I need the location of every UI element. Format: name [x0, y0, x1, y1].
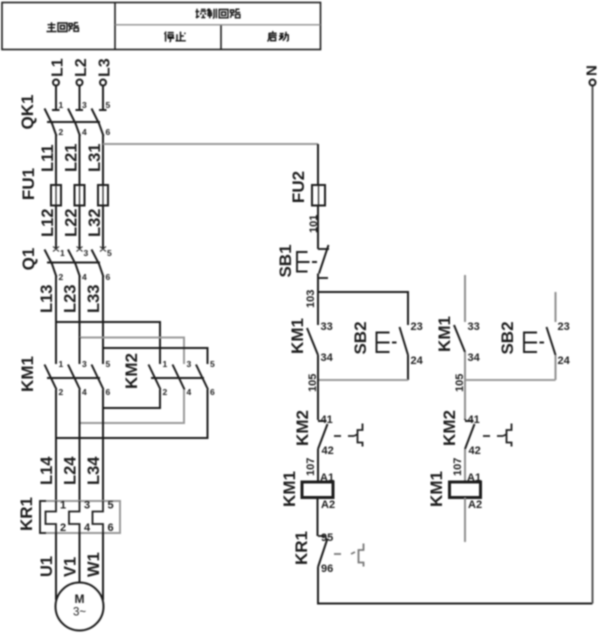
svg-text:107: 107 [305, 458, 317, 476]
pushbutton SB2 (right) [524, 327, 556, 355]
svg-text:3: 3 [84, 248, 89, 258]
coil KM2 (labelled KM1) [450, 482, 481, 498]
fuse FU2 [312, 185, 325, 206]
header text 控制回路 [195, 9, 240, 19]
svg-text:103: 103 [305, 290, 317, 308]
svg-text:L33: L33 [85, 285, 103, 313]
wire SB2 branch top (right) [555, 292, 557, 322]
KM2 aux pins 41 42 [321, 414, 334, 457]
KR1 left edge [40, 501, 46, 533]
svg-text:101: 101 [308, 215, 320, 233]
svg-text:6: 6 [108, 522, 114, 534]
thermal trip dash [334, 553, 341, 555]
svg-text:L3: L3 [97, 58, 114, 77]
svg-text:L24: L24 [62, 456, 80, 485]
wire right branch top [464, 275, 466, 322]
wire SB2 to node 105 (right) [555, 355, 557, 380]
svg-text:L34: L34 [85, 456, 103, 485]
svg-text:2: 2 [59, 272, 64, 282]
svg-text:1: 1 [60, 248, 65, 258]
svg-text:1: 1 [59, 100, 64, 110]
wire L23 segment [62, 285, 80, 338]
svg-text:Q1: Q1 [19, 248, 38, 271]
svg-text:A2: A2 [468, 499, 482, 511]
svg-text:2: 2 [163, 387, 168, 397]
svg-text:3~: 3~ [73, 607, 86, 619]
svg-text:33: 33 [468, 321, 480, 333]
contactor KM2 main contacts [149, 365, 209, 390]
svg-text:96: 96 [321, 563, 333, 575]
svg-text:SB2: SB2 [498, 321, 517, 354]
wire SB2 bottom to node 105 [407, 355, 409, 380]
svg-text:L32: L32 [86, 209, 104, 237]
svg-text:FU1: FU1 [19, 168, 38, 200]
wire 103 [305, 274, 318, 309]
svg-text:L12: L12 [39, 209, 57, 237]
wire V1 segment [62, 533, 80, 583]
wire L24 segment [62, 390, 80, 502]
svg-text:N: N [584, 65, 599, 76]
wire 101 [308, 206, 320, 250]
svg-text:KM1: KM1 [18, 356, 37, 392]
svg-text:5: 5 [106, 359, 111, 369]
wire 107 (right) [452, 449, 465, 482]
wire branch top to SB2 [318, 292, 408, 325]
svg-text:KR1: KR1 [292, 531, 311, 565]
breaker QK1 [45, 86, 107, 147]
svg-text:33: 33 [321, 321, 333, 333]
svg-text:L22: L22 [63, 209, 81, 237]
wire feed phase3 to KM2 pole3 [103, 348, 208, 364]
wire bottom run to N [318, 567, 593, 604]
svg-text:107: 107 [452, 458, 464, 476]
mechanical interlock symbol right [503, 424, 512, 447]
svg-text:FU2: FU2 [289, 171, 308, 203]
svg-text:34: 34 [468, 352, 481, 364]
wire N riser [592, 86, 594, 604]
svg-text:41: 41 [321, 414, 333, 426]
wire feed phase2 to KM2 pole2 [80, 338, 185, 365]
svg-text:KM2: KM2 [440, 410, 459, 446]
node L3 terminal [97, 58, 114, 85]
wire L32 segment [86, 206, 104, 250]
header text 主回路 [47, 22, 79, 31]
node N terminal [584, 65, 599, 85]
svg-text:L13: L13 [38, 285, 56, 313]
svg-text:L23: L23 [62, 285, 80, 313]
svg-text:SB2: SB2 [351, 321, 370, 354]
svg-text:4: 4 [82, 387, 87, 397]
contact KR1 aux NC [318, 536, 328, 567]
svg-text:2: 2 [59, 127, 64, 137]
svg-text:23: 23 [558, 321, 570, 333]
svg-text:3: 3 [84, 500, 90, 512]
wire feed phase1 to KM2 pole1 [56, 322, 160, 364]
wire node 105 (right) [454, 374, 556, 392]
svg-text:5: 5 [107, 248, 112, 258]
header text 停止 [165, 32, 186, 42]
KR1 pin numbers [60, 500, 114, 535]
svg-text:L2: L2 [73, 58, 90, 77]
KR1 heater element pole3 [93, 501, 104, 533]
contact KM1 aux NO [307, 328, 318, 355]
svg-text:5: 5 [210, 359, 215, 369]
svg-text:M: M [75, 592, 85, 606]
svg-text:KM1: KM1 [427, 471, 446, 507]
wire L12 segment [39, 206, 57, 250]
svg-text:A2: A2 [321, 499, 335, 511]
contact KM1 aux NO (right) [454, 325, 465, 352]
svg-text:5: 5 [106, 100, 111, 110]
svg-text:KR1: KR1 [17, 497, 36, 531]
wire 107 [305, 449, 318, 482]
svg-text:U1: U1 [38, 556, 56, 577]
wire control drop to FU2 [317, 144, 319, 185]
svg-text:4: 4 [82, 127, 87, 137]
pushbutton SB2 (NO start) [377, 327, 409, 355]
wire W1 segment [85, 533, 103, 600]
svg-text:95: 95 [321, 532, 333, 544]
svg-text:42: 42 [322, 445, 334, 457]
pushbutton SB1 (NC stop) [297, 245, 329, 278]
svg-text:24: 24 [411, 355, 424, 367]
wire L34 segment [85, 390, 103, 502]
svg-text:24: 24 [558, 355, 571, 367]
svg-text:34: 34 [321, 352, 334, 364]
wire phase2 into KM1 [79, 338, 81, 365]
svg-text:3: 3 [82, 359, 87, 369]
wire phase3 into KM1 [102, 348, 104, 364]
contact KM2 aux NC [318, 419, 328, 449]
mechanical interlock dashes right [483, 435, 503, 437]
coil KM1 [302, 482, 333, 498]
svg-text:2: 2 [59, 387, 64, 397]
svg-text:L31: L31 [86, 144, 104, 172]
svg-text:KM2: KM2 [293, 410, 312, 446]
svg-text:KM2: KM2 [122, 353, 141, 389]
wire L22 segment [63, 206, 81, 250]
KR1 heater element pole1 [46, 501, 57, 533]
wire L13 segment [38, 285, 56, 322]
svg-text:6: 6 [106, 127, 111, 137]
svg-text:1: 1 [163, 359, 168, 369]
wire control tap from phase3 [103, 143, 318, 145]
svg-text:KM1: KM1 [435, 316, 454, 352]
svg-text:6: 6 [106, 387, 111, 397]
KM1 aux pins 33 34 [321, 321, 334, 364]
wire node 105 [307, 374, 408, 392]
coil KM1 pins A1 A2 [320, 472, 335, 511]
thermal relay KR1 box [40, 501, 120, 533]
coil pins A1 A2 (right) [467, 472, 482, 511]
SB2 pins 23 24 (right) [558, 321, 571, 367]
wire below coil (right) [464, 498, 466, 543]
wire L14 segment [38, 390, 56, 502]
svg-text:6: 6 [210, 387, 215, 397]
svg-text:6: 6 [106, 272, 111, 282]
svg-text:KM1: KM1 [288, 318, 307, 354]
KM1 pin numbers [59, 359, 111, 397]
header table frame [2, 3, 321, 50]
wire U1 segment [38, 533, 56, 600]
KM1 aux pins 33 34 (right) [468, 321, 481, 364]
node L2 terminal [73, 58, 90, 85]
breaker Q1 [45, 247, 107, 291]
QK1 pin numbers [59, 100, 111, 137]
contact KM2 aux NC (right) [465, 419, 475, 449]
contactor KM1 main contacts [45, 365, 104, 390]
svg-text:2: 2 [60, 522, 66, 534]
svg-text:QK1: QK1 [18, 95, 37, 130]
KM2 pin numbers [163, 359, 216, 397]
KM2 aux pins 41 42 (right) [468, 414, 481, 457]
wire main into KM1 aux [317, 292, 319, 325]
svg-text:W1: W1 [85, 552, 103, 577]
motor M1 [56, 583, 104, 631]
mechanical interlock symbol left [354, 424, 363, 447]
svg-text:1: 1 [60, 500, 66, 512]
svg-text:L21: L21 [63, 144, 81, 172]
svg-text:A1: A1 [320, 472, 334, 484]
wire KM2 pole1 return to phase3 [103, 390, 160, 409]
svg-text:3: 3 [187, 359, 192, 369]
fuse FU1 [51, 185, 108, 206]
wire L21 segment [63, 144, 81, 185]
svg-text:5: 5 [108, 500, 114, 512]
thermal trip symbol [351, 544, 364, 567]
svg-text:42: 42 [469, 445, 481, 457]
mechanical interlock dashes left [334, 435, 354, 437]
wire KM1 aux to KM2 (right) [464, 352, 466, 419]
header text 启动 [268, 31, 289, 41]
svg-text:3: 3 [82, 100, 87, 110]
svg-text:1: 1 [59, 359, 64, 369]
svg-text:23: 23 [411, 321, 423, 333]
Q1 pin numbers [59, 248, 113, 282]
wire L33 segment [85, 285, 103, 350]
wire KM1 aux to KM2 interlock [317, 355, 319, 419]
svg-text:L1: L1 [50, 58, 67, 77]
wire coil to KR1 contact [317, 498, 319, 537]
svg-text:L14: L14 [38, 456, 56, 485]
svg-text:L11: L11 [39, 144, 57, 172]
svg-text:A1: A1 [467, 472, 481, 484]
svg-text:KM1: KM1 [280, 471, 299, 507]
svg-text:4: 4 [187, 387, 192, 397]
svg-text:41: 41 [468, 414, 480, 426]
svg-text:4: 4 [82, 272, 87, 282]
KR1 aux pins 95 96 [321, 532, 333, 575]
SB2 pins 23 24 [411, 321, 424, 367]
svg-text:V1: V1 [62, 557, 80, 577]
svg-text:SB1: SB1 [276, 244, 295, 277]
KR1 heater element pole2 [69, 501, 80, 533]
svg-text:4: 4 [84, 522, 91, 534]
wire L31 segment [86, 144, 104, 185]
wire KM2 pole3 return to phase1 [56, 390, 208, 439]
node L1 terminal [50, 58, 67, 85]
wire L11 segment [39, 144, 57, 185]
wire KM2 pole2 return to phase2 [80, 390, 185, 424]
wire phase1 into KM1 [55, 322, 57, 364]
